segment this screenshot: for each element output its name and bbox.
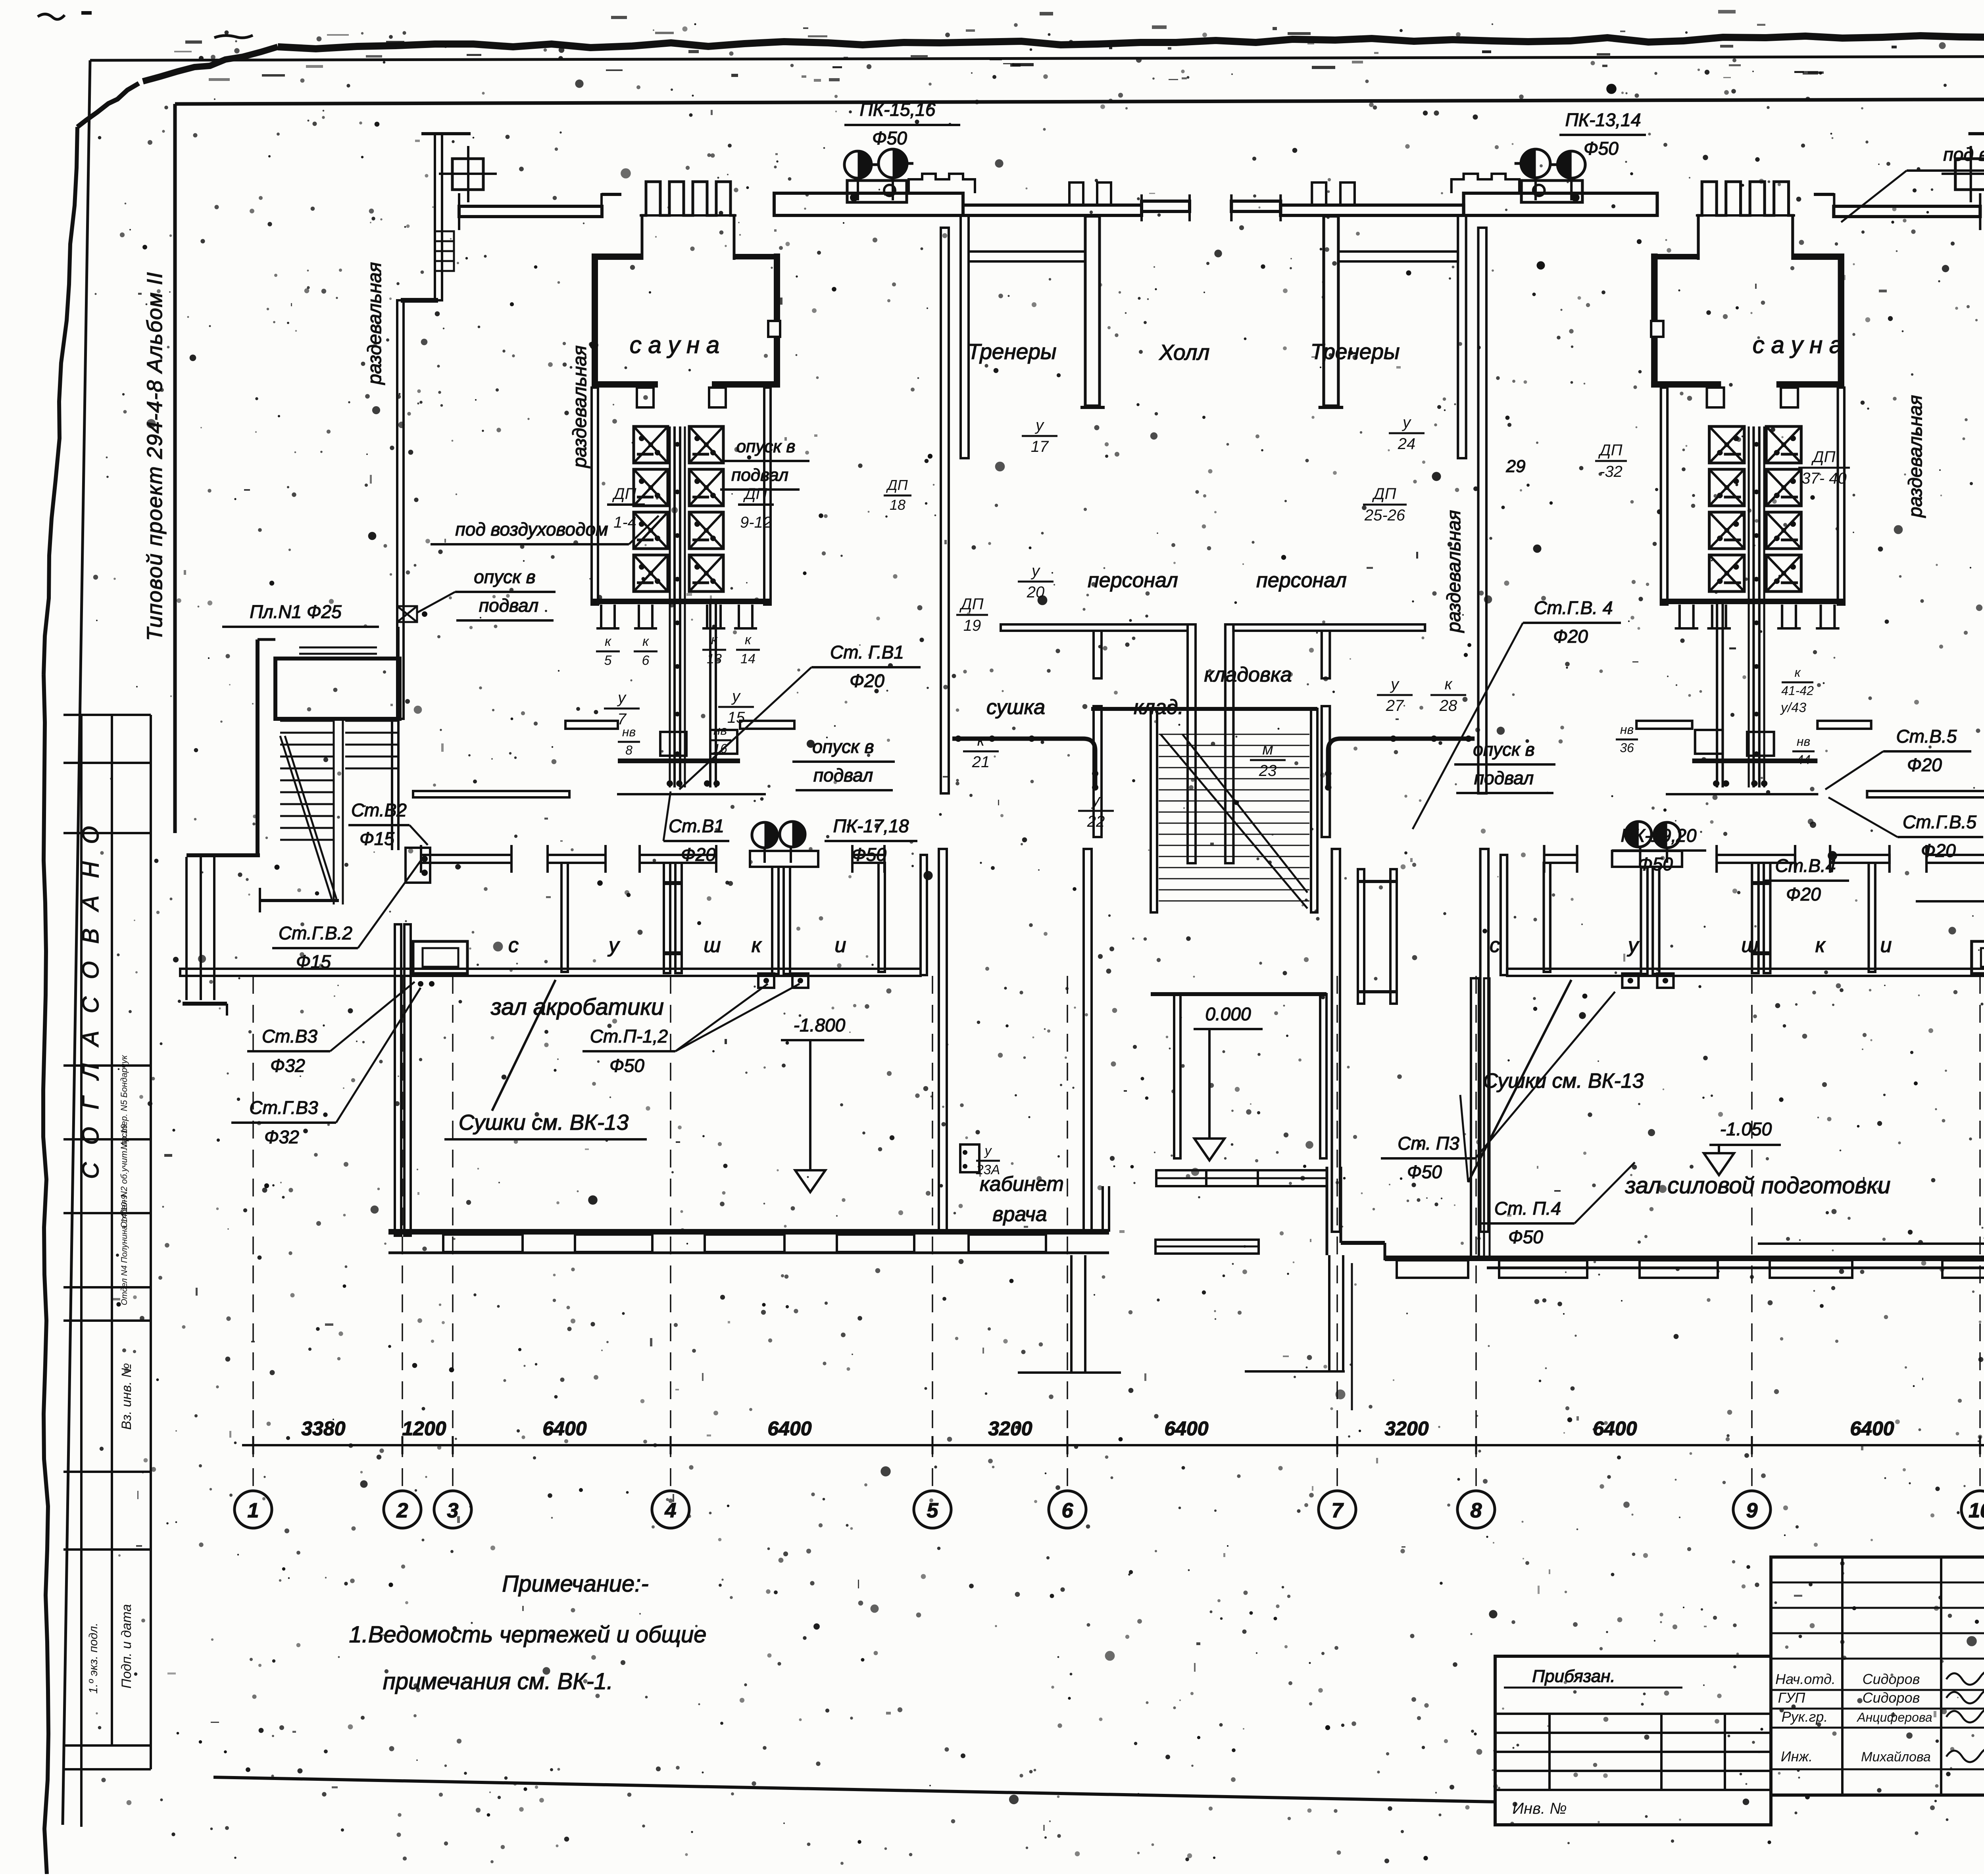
svg-text:10: 10: [1969, 1499, 1984, 1522]
svg-text:Нач.отд.: Нач.отд.: [1775, 1671, 1836, 1687]
svg-text:Прибязан.: Прибязан.: [1532, 1667, 1615, 1686]
svg-text:Ф50: Ф50: [872, 128, 907, 148]
svg-text:нв: нв: [622, 725, 636, 739]
svg-text:Ф20: Ф20: [850, 670, 884, 691]
svg-text:у: у: [1034, 417, 1045, 434]
svg-text:Вз. инв. №: Вз. инв. №: [119, 1363, 134, 1430]
svg-text:Ф20: Ф20: [681, 844, 716, 865]
svg-text:Ст.В3: Ст.В3: [262, 1026, 317, 1046]
svg-text:6400: 6400: [1593, 1417, 1637, 1440]
svg-text:с: с: [1490, 934, 1500, 957]
svg-text:у: у: [731, 687, 741, 705]
svg-text:6400: 6400: [542, 1417, 586, 1440]
svg-text:к: к: [711, 632, 718, 647]
svg-text:19: 19: [963, 617, 981, 634]
svg-text:-1.800: -1.800: [794, 1015, 846, 1035]
svg-text:Ф20: Ф20: [1553, 626, 1588, 647]
svg-text:Примечание:-: Примечание:-: [502, 1571, 648, 1597]
svg-text:зал силовой подготовки: зал силовой подготовки: [1625, 1173, 1891, 1198]
svg-text:17: 17: [1031, 438, 1049, 455]
svg-text:1.º экз. подл.: 1.º экз. подл.: [87, 1623, 100, 1694]
svg-text:Анциферова: Анциферова: [1856, 1710, 1932, 1724]
svg-text:Пл.N1 Ф25: Пл.N1 Ф25: [250, 601, 342, 622]
svg-text:Тренеры: Тренеры: [967, 339, 1057, 364]
svg-text:29: 29: [1506, 457, 1526, 476]
svg-text:9: 9: [1746, 1499, 1758, 1522]
svg-text:Сушки см. ВК-13: Сушки см. ВК-13: [1483, 1070, 1644, 1093]
svg-text:Сушки см. ВК-13: Сушки см. ВК-13: [459, 1110, 629, 1135]
svg-text:раздевальная: раздевальная: [569, 346, 590, 469]
svg-text:у: у: [1091, 791, 1101, 809]
svg-text:36: 36: [1620, 741, 1634, 755]
svg-text:Ст.Г.В. 4: Ст.Г.В. 4: [1534, 597, 1613, 618]
svg-text:6400: 6400: [1850, 1417, 1894, 1440]
svg-text:3380: 3380: [301, 1417, 345, 1440]
svg-text:Ст.Г.В.5: Ст.Г.В.5: [1903, 812, 1976, 832]
svg-text:20: 20: [1027, 584, 1045, 601]
svg-text:и: и: [1880, 934, 1892, 957]
svg-text:6400: 6400: [767, 1417, 811, 1440]
svg-text:1-4: 1-4: [613, 514, 636, 531]
svg-text:опуск в: опуск в: [736, 437, 796, 456]
svg-text:Ст.Г.В3: Ст.Г.В3: [249, 1097, 318, 1118]
svg-text:подвал: подвал: [479, 595, 538, 616]
svg-text:опуск в: опуск в: [812, 736, 874, 757]
svg-text:у: у: [1401, 414, 1412, 431]
svg-text:Ст.П-1,2: Ст.П-1,2: [590, 1026, 668, 1046]
svg-text:4: 4: [665, 1499, 677, 1522]
svg-text:16: 16: [713, 741, 727, 756]
svg-text:у: у: [608, 934, 620, 957]
svg-text:С О Г Л А С О В А Н О: С О Г Л А С О В А Н О: [78, 820, 104, 1179]
svg-text:сушка: сушка: [986, 696, 1045, 719]
svg-text:раздевальная: раздевальная: [1905, 395, 1926, 518]
svg-text:Ст.В1: Ст.В1: [669, 816, 724, 836]
svg-text:Ст.В.5: Ст.В.5: [1896, 726, 1957, 747]
svg-text:ДП: ДП: [886, 477, 908, 493]
svg-text:к: к: [752, 934, 762, 957]
svg-text:23: 23: [1259, 762, 1277, 780]
svg-text:24: 24: [1398, 435, 1416, 453]
svg-text:Типовой проект 294-4-8 Альбом: Типовой проект 294-4-8 Альбом II: [143, 271, 167, 641]
svg-text:Ст.В.4: Ст.В.4: [1775, 855, 1836, 876]
svg-text:подвал: подвал: [1474, 768, 1534, 788]
svg-text:у: у: [1030, 562, 1041, 580]
svg-text:ПК-13,14: ПК-13,14: [1565, 109, 1641, 130]
svg-text:9-12: 9-12: [740, 514, 772, 531]
svg-text:Ф15: Ф15: [360, 828, 394, 849]
svg-text:6: 6: [1062, 1499, 1074, 1522]
svg-text:Ст. П3: Ст. П3: [1398, 1133, 1459, 1154]
svg-text:21: 21: [972, 753, 990, 771]
svg-text:25-26: 25-26: [1364, 507, 1405, 524]
svg-text:ДП: ДП: [959, 595, 984, 613]
svg-text:Ф32: Ф32: [264, 1127, 299, 1147]
svg-text:14: 14: [740, 651, 756, 666]
svg-text:к: к: [1794, 665, 1801, 680]
svg-text:клад.: клад.: [1134, 696, 1184, 719]
svg-text:-32: -32: [1600, 463, 1623, 480]
svg-text:41-42: 41-42: [1781, 684, 1814, 698]
svg-text:с а у н а: с а у н а: [1753, 332, 1842, 358]
svg-text:подвал: подвал: [813, 765, 873, 785]
svg-text:5: 5: [604, 653, 612, 668]
svg-text:ГУП: ГУП: [1778, 1690, 1806, 1706]
svg-text:18: 18: [890, 497, 905, 513]
svg-text:под воздуховодом: под воздуховодом: [455, 519, 608, 540]
svg-text:27: 27: [1386, 697, 1404, 714]
svg-text:ДП: ДП: [612, 485, 636, 503]
svg-text:персонал: персонал: [1088, 569, 1178, 592]
svg-text:к: к: [977, 732, 986, 749]
svg-text:Ст. Г.В1: Ст. Г.В1: [830, 642, 904, 662]
svg-text:м: м: [1262, 741, 1273, 758]
svg-text:Тренеры: Тренеры: [1311, 339, 1400, 364]
svg-text:у/43: у/43: [1780, 700, 1806, 715]
svg-text:ДП: ДП: [1372, 485, 1396, 503]
svg-text:у: у: [1390, 676, 1400, 693]
svg-text:раздевальная: раздевальная: [1444, 510, 1465, 634]
svg-text:13: 13: [707, 651, 722, 666]
svg-text:примечания см. ВК-1.: примечания см. ВК-1.: [383, 1669, 613, 1694]
svg-text:28: 28: [1439, 697, 1457, 714]
svg-text:к: к: [642, 634, 650, 649]
svg-text:1200: 1200: [402, 1417, 446, 1440]
svg-text:5: 5: [927, 1499, 939, 1522]
svg-text:Ф20: Ф20: [1786, 884, 1821, 904]
svg-text:-1.050: -1.050: [1720, 1119, 1772, 1139]
svg-text:7: 7: [1332, 1499, 1344, 1522]
svg-text:0.000: 0.000: [1205, 1004, 1251, 1024]
svg-text:8: 8: [1471, 1499, 1482, 1522]
svg-text:у: у: [1627, 934, 1640, 957]
svg-text:ПК-17,18: ПК-17,18: [833, 816, 909, 836]
svg-text:к: к: [1815, 934, 1826, 957]
svg-text:3200: 3200: [1384, 1417, 1428, 1440]
svg-text:Ф32: Ф32: [270, 1055, 305, 1076]
svg-text:Ф50: Ф50: [1638, 854, 1673, 874]
svg-text:Ф50: Ф50: [1584, 138, 1619, 159]
svg-text:ш: ш: [704, 934, 721, 957]
svg-text:нв: нв: [1620, 722, 1634, 737]
svg-text:6400: 6400: [1164, 1417, 1208, 1440]
svg-text:ДП: ДП: [1598, 442, 1623, 459]
svg-text:Михайлова: Михайлова: [1861, 1749, 1931, 1765]
svg-text:Ст. П.4: Ст. П.4: [1494, 1198, 1561, 1219]
svg-text:Ф20: Ф20: [1907, 755, 1942, 775]
svg-text:к: к: [1445, 676, 1453, 693]
svg-text:Ф15: Ф15: [296, 951, 331, 972]
svg-text:Ст.Г.В.2: Ст.Г.В.2: [279, 923, 352, 943]
svg-text:опуск в: опуск в: [474, 566, 535, 587]
svg-text:Инв. №: Инв. №: [1512, 1800, 1567, 1817]
svg-text:врача: врача: [992, 1203, 1047, 1226]
svg-text:Ф50: Ф50: [852, 844, 886, 865]
svg-text:ш: ш: [1741, 934, 1758, 957]
svg-text:37- 40: 37- 40: [1801, 470, 1846, 487]
svg-text:опуск в: опуск в: [1473, 739, 1534, 760]
svg-text:22: 22: [1087, 813, 1105, 830]
svg-text:под воздуховодам: под воздуховодам: [1943, 144, 1984, 165]
svg-text:подвал: подвал: [731, 465, 788, 485]
svg-text:Ф20: Ф20: [1921, 840, 1956, 861]
svg-text:нв: нв: [713, 723, 727, 737]
svg-text:Сидоров: Сидоров: [1863, 1671, 1920, 1687]
svg-text:44: 44: [1796, 753, 1811, 767]
svg-text:ПК-15,16: ПК-15,16: [860, 99, 936, 120]
svg-text:Рук.гр.: Рук.гр.: [1782, 1709, 1828, 1725]
svg-text:Сидоров: Сидоров: [1863, 1690, 1920, 1706]
svg-text:нв: нв: [1797, 734, 1810, 749]
svg-text:ПК-19,20: ПК-19,20: [1621, 825, 1697, 846]
svg-text:8: 8: [625, 743, 632, 757]
svg-text:Ф50: Ф50: [609, 1055, 644, 1076]
svg-text:раздевальная: раздевальная: [364, 262, 385, 386]
svg-text:кладовка: кладовка: [1204, 663, 1292, 686]
svg-text:Инж.: Инж.: [1781, 1748, 1813, 1765]
svg-text:и: и: [835, 934, 846, 957]
svg-text:с а у н а: с а у н а: [630, 332, 719, 358]
svg-text:у: у: [984, 1143, 992, 1158]
svg-text:к: к: [605, 634, 612, 649]
svg-text:1: 1: [248, 1499, 259, 1522]
svg-text:Отдел N4 Полунина 14/10-9: Отдел N4 Полунина 14/10-9: [120, 1194, 129, 1305]
svg-text:к: к: [745, 632, 752, 647]
svg-text:3: 3: [447, 1499, 459, 1522]
svg-text:зал акробатики: зал акробатики: [490, 994, 664, 1020]
svg-text:с: с: [508, 934, 519, 957]
svg-text:3200: 3200: [988, 1417, 1032, 1440]
svg-text:ДП: ДП: [743, 485, 767, 503]
svg-text:Ф50: Ф50: [1407, 1162, 1442, 1182]
svg-text:1.Ведомость чертежей и общ: 1.Ведомость чертежей и общие: [349, 1622, 706, 1648]
svg-text:2: 2: [396, 1499, 408, 1522]
svg-text:Подп. и дата: Подп. и дата: [119, 1604, 134, 1689]
svg-text:у: у: [617, 689, 627, 707]
svg-text:Холл: Холл: [1159, 340, 1210, 365]
svg-text:6: 6: [642, 653, 650, 668]
svg-text:15: 15: [727, 709, 745, 726]
svg-text:ДП: ДП: [1811, 448, 1836, 466]
svg-text:Ф50: Ф50: [1508, 1227, 1543, 1247]
svg-text:Ст.В2: Ст.В2: [351, 800, 407, 820]
svg-text:персонал: персонал: [1256, 569, 1347, 592]
